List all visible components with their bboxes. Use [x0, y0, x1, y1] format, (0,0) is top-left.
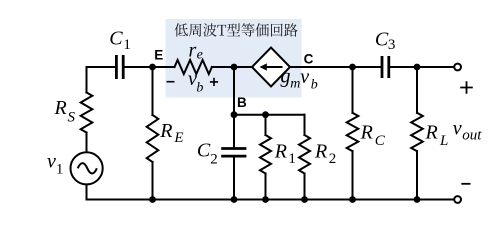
- wire: diamond to R_C node: [290, 66, 381, 68]
- svg-text:B: B: [237, 95, 247, 110]
- capacitor C3 plates: [382, 56, 389, 78]
- svg-text:R: R: [54, 97, 67, 119]
- svg-text:C: C: [375, 133, 386, 149]
- capacitor C1 plates: [116, 55, 123, 79]
- junction dot after re: [231, 64, 238, 71]
- resistor R1 zigzag: [260, 135, 271, 174]
- wire: R_C leads: [352, 67, 354, 113]
- junction dot node B: [231, 111, 238, 118]
- label minus of vb: [167, 81, 175, 83]
- svg-text:L: L: [439, 133, 448, 149]
- wire: C1 to node E to r_e: [124, 66, 174, 68]
- resistor re zigzag: [175, 60, 212, 74]
- svg-text:b: b: [311, 78, 318, 93]
- resistor RE zigzag: [147, 115, 159, 162]
- junction dot R1 bottom: [262, 196, 269, 203]
- wire: r_e to diamond: [212, 66, 252, 68]
- svg-text:out: out: [462, 128, 482, 144]
- svg-text:R: R: [425, 121, 438, 143]
- wire: C2 branch: [233, 115, 235, 148]
- svg-text:1: 1: [56, 162, 64, 178]
- svg-text:g: g: [281, 66, 291, 88]
- wire: R2 leads: [304, 115, 306, 135]
- label + output: [460, 81, 473, 94]
- svg-text:v: v: [453, 118, 462, 140]
- svg-text:C: C: [197, 139, 211, 161]
- svg-text:S: S: [68, 109, 76, 125]
- label: title 低周波T型等価回路: [174, 23, 297, 36]
- resistor R2 zigzag: [299, 135, 310, 174]
- svg-text:C: C: [109, 28, 123, 50]
- svg-text:2: 2: [210, 152, 218, 168]
- junction dot RE bottom: [149, 196, 156, 203]
- svg-text:v: v: [300, 66, 309, 88]
- junction dot R2 bottom: [301, 196, 308, 203]
- junction dot RC top: [349, 64, 356, 71]
- junction dot RL bottom: [414, 196, 421, 203]
- svg-text:C: C: [304, 52, 314, 67]
- svg-text:v: v: [47, 151, 56, 173]
- junction dot R1 top: [262, 111, 269, 118]
- resistor RS zigzag: [81, 93, 93, 133]
- svg-text:3: 3: [388, 37, 396, 53]
- wire: R_S bottom to v1 top: [86, 133, 88, 153]
- svg-text:E: E: [173, 130, 183, 146]
- svg-text:R: R: [360, 121, 373, 143]
- wire: node B vertical drop: [233, 67, 235, 115]
- svg-text:R: R: [159, 120, 172, 142]
- controlled source U1 diamond: [252, 48, 290, 87]
- source v1 circle: [71, 152, 103, 184]
- wire: v1 bottom + bottom ground rail: [87, 184, 454, 199]
- svg-text:R: R: [274, 141, 287, 163]
- junction dot RC bottom: [349, 196, 356, 203]
- label plus of vb: [210, 78, 218, 86]
- wire: R1 leads: [265, 115, 267, 135]
- wire: top-left rail (source top corner to C1): [87, 67, 116, 93]
- junction dot C2 bottom: [231, 196, 238, 203]
- svg-text:1: 1: [288, 151, 296, 167]
- node E junction dot: [149, 64, 156, 71]
- terminal - (open circle bottom right): [454, 196, 461, 203]
- junction dot RL top: [414, 64, 421, 71]
- svg-text:r: r: [189, 40, 197, 62]
- capacitor C2 plates: [221, 149, 246, 157]
- wire: node B horizontal bus: [234, 114, 305, 116]
- label - output: [461, 183, 470, 185]
- svg-text:2: 2: [329, 151, 337, 167]
- svg-text:e: e: [197, 48, 203, 63]
- resistor RL zigzag: [411, 113, 423, 151]
- svg-text:E: E: [154, 48, 163, 63]
- wire: C3 to R_L node to + terminal: [390, 66, 453, 68]
- svg-text:C: C: [375, 29, 389, 51]
- wire: R_L leads: [416, 67, 418, 113]
- highlight box: equivalent circuit region: [166, 19, 302, 98]
- svg-text:b: b: [196, 80, 203, 95]
- svg-text:1: 1: [123, 37, 130, 53]
- svg-text:R: R: [314, 141, 327, 163]
- source v1 sine: [78, 163, 97, 173]
- terminal + (open circle top right): [454, 64, 461, 71]
- resistor RC zigzag: [347, 113, 359, 151]
- wire: node E down through R_E to bottom rail: [152, 67, 154, 115]
- svg-text:m: m: [290, 76, 300, 91]
- controlled source arrow: [264, 66, 283, 68]
